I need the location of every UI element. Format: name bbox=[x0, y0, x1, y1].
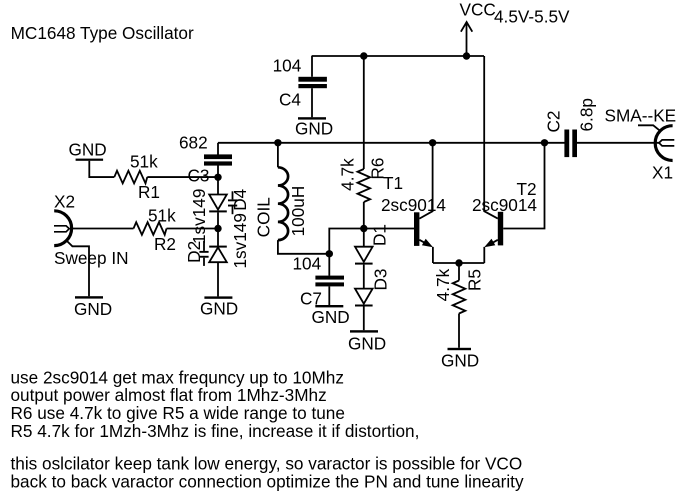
svg-text:4.7k: 4.7k bbox=[433, 268, 453, 301]
svg-text:R5: R5 bbox=[465, 269, 485, 291]
svg-text:682: 682 bbox=[179, 133, 208, 153]
svg-text:C3: C3 bbox=[188, 166, 210, 186]
svg-text:104: 104 bbox=[273, 56, 302, 76]
svg-text:1sv149: 1sv149 bbox=[189, 189, 209, 244]
svg-text:2sc9014: 2sc9014 bbox=[472, 195, 537, 215]
svg-text:X2: X2 bbox=[54, 192, 75, 212]
svg-text:back to back varactor connecti: back to back varactor connection optimiz… bbox=[11, 471, 524, 491]
svg-text:MC1648 Type Oscillator: MC1648 Type Oscillator bbox=[11, 23, 194, 43]
svg-text:R5 4.7k for 1Mzh-3Mhz is fine,: R5 4.7k for 1Mzh-3Mhz is fine, increase … bbox=[11, 421, 420, 441]
svg-text:GND: GND bbox=[200, 299, 238, 319]
svg-text:C4: C4 bbox=[279, 90, 301, 110]
svg-text:51k: 51k bbox=[148, 206, 176, 226]
svg-text:R2: R2 bbox=[154, 234, 176, 254]
svg-text:D3: D3 bbox=[371, 269, 391, 291]
svg-text:4.5V-5.5V: 4.5V-5.5V bbox=[494, 7, 570, 27]
svg-text:R1: R1 bbox=[138, 182, 160, 202]
svg-text:VCC: VCC bbox=[460, 0, 496, 20]
svg-text:C7: C7 bbox=[300, 289, 322, 309]
svg-text:GND: GND bbox=[74, 299, 112, 319]
svg-text:C2: C2 bbox=[544, 111, 564, 133]
svg-text:6.8p: 6.8p bbox=[577, 98, 597, 131]
svg-text:GND: GND bbox=[348, 334, 386, 354]
svg-text:1sv149: 1sv149 bbox=[230, 213, 250, 268]
svg-text:GND: GND bbox=[295, 119, 333, 139]
svg-text:51k: 51k bbox=[130, 152, 158, 172]
svg-text:COIL: COIL bbox=[254, 197, 274, 237]
svg-text:4.7k: 4.7k bbox=[338, 158, 358, 191]
svg-text:GND: GND bbox=[69, 140, 107, 160]
svg-text:Sweep IN: Sweep IN bbox=[54, 248, 129, 268]
svg-text:100uH: 100uH bbox=[288, 186, 308, 237]
svg-text:SMA--KE: SMA--KE bbox=[605, 106, 677, 126]
svg-text:X1: X1 bbox=[652, 163, 673, 183]
svg-text:104: 104 bbox=[293, 254, 322, 274]
svg-text:D1: D1 bbox=[370, 224, 390, 246]
svg-text:2sc9014: 2sc9014 bbox=[381, 195, 446, 215]
svg-text:GND: GND bbox=[441, 351, 479, 371]
svg-text:R6: R6 bbox=[368, 158, 388, 180]
svg-text:GND: GND bbox=[312, 307, 350, 327]
svg-text:D4: D4 bbox=[230, 188, 250, 210]
